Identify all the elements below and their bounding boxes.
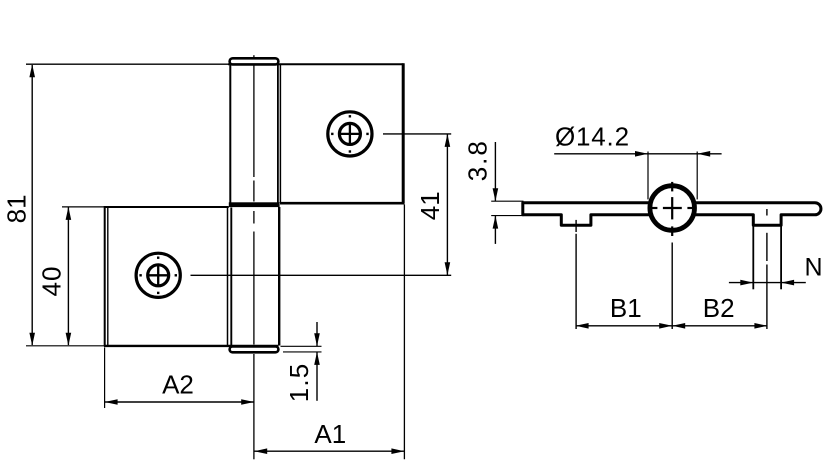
svg-text:81: 81	[1, 194, 31, 223]
svg-text:41: 41	[415, 191, 445, 220]
svg-text:1.5: 1.5	[284, 363, 314, 403]
svg-text:40: 40	[37, 266, 67, 297]
svg-text:N: N	[804, 254, 822, 282]
svg-text:A2: A2	[162, 369, 194, 399]
svg-text:A1: A1	[314, 419, 346, 449]
svg-text:3.8: 3.8	[463, 139, 493, 181]
svg-text:Ø14.2: Ø14.2	[555, 122, 630, 152]
svg-text:B2: B2	[703, 293, 735, 323]
svg-text:B1: B1	[610, 293, 642, 323]
